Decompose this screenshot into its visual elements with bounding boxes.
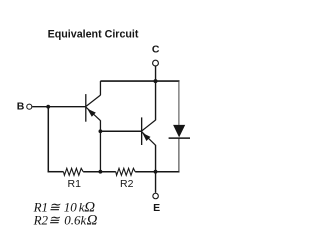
svg-text:R2: R2 (120, 178, 134, 190)
svg-text:R2≅0.6kΩ: R2≅0.6kΩ (33, 212, 98, 228)
svg-text:Equivalent Circuit: Equivalent Circuit (48, 28, 139, 40)
svg-text:C: C (152, 43, 160, 55)
svg-text:R1: R1 (68, 178, 82, 190)
svg-text:E: E (153, 202, 160, 214)
svg-text:B: B (17, 101, 25, 113)
